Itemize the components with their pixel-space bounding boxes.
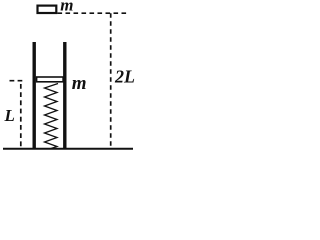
svg-text:m: m xyxy=(60,0,73,15)
tube left wall xyxy=(33,42,36,150)
dashed vertical line (2L dimension) xyxy=(110,13,112,148)
svg-text:L: L xyxy=(4,106,15,125)
spring xyxy=(45,84,59,149)
block m (upper, at height 2L) xyxy=(38,6,57,13)
dashed tick at piston level (left) xyxy=(10,80,23,82)
tube right wall xyxy=(63,42,66,150)
svg-text:m: m xyxy=(72,73,87,94)
dashed horizontal line from block level to right xyxy=(58,12,128,14)
dashed vertical line (L dimension) xyxy=(20,84,22,148)
piston (mass m inside tube) xyxy=(37,77,64,82)
ground line xyxy=(3,148,133,150)
svg-text:2L: 2L xyxy=(114,67,135,87)
